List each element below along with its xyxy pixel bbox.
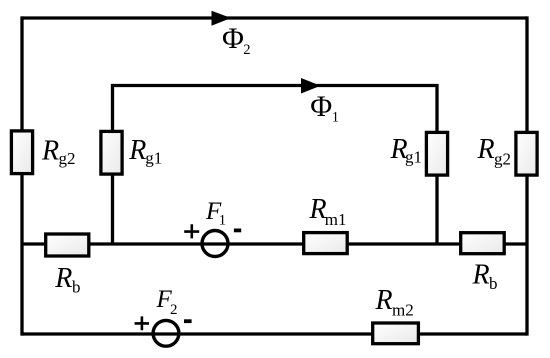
svg-text:b: b (72, 278, 81, 297)
svg-text:g2: g2 (59, 149, 76, 168)
mmf source F2 (153, 320, 179, 346)
svg-text:m2: m2 (392, 300, 414, 319)
wire outer loop left (20, 16, 23, 335)
svg-text:m1: m1 (325, 210, 347, 229)
svg-text:b: b (489, 274, 498, 293)
wire outer loop bottom (22, 332, 527, 335)
minus sign F1 (234, 228, 241, 232)
svg-text:Φ: Φ (310, 90, 332, 123)
svg-text:R: R (375, 285, 393, 316)
wire middle horizontal (22, 242, 527, 245)
resistor Rg2 right (516, 132, 537, 175)
wire outer loop right (525, 16, 528, 335)
resistor Rb right (461, 233, 505, 254)
arrow flux phi1 (301, 78, 321, 94)
mmf source F1 (202, 231, 228, 257)
plus sign F2 (135, 316, 149, 330)
svg-text:2: 2 (243, 42, 250, 58)
resistor Rg2 left (11, 131, 32, 174)
svg-text:1: 1 (332, 110, 339, 126)
svg-text:g1: g1 (405, 148, 422, 167)
wire outer loop top (22, 16, 527, 19)
resistor Rg1 left (101, 131, 122, 174)
svg-text:1: 1 (219, 213, 227, 229)
wire inner loop top (113, 86, 438, 245)
resistor Rm1 (304, 233, 348, 254)
svg-text:g1: g1 (145, 149, 162, 168)
svg-text:R: R (54, 263, 72, 294)
svg-text:g2: g2 (494, 150, 511, 169)
svg-text:Φ: Φ (222, 22, 244, 55)
svg-text:R: R (477, 134, 495, 165)
plus sign F1 (184, 224, 199, 238)
resistor Rm2 (373, 323, 419, 344)
svg-text:2: 2 (170, 302, 178, 318)
resistor Rg1 right (426, 132, 447, 175)
resistor Rb left (46, 234, 89, 256)
arrow flux phi2 (212, 11, 232, 26)
svg-text:R: R (472, 260, 490, 291)
minus sign F2 (184, 319, 192, 323)
svg-text:R: R (41, 136, 59, 167)
svg-text:R: R (128, 135, 146, 166)
